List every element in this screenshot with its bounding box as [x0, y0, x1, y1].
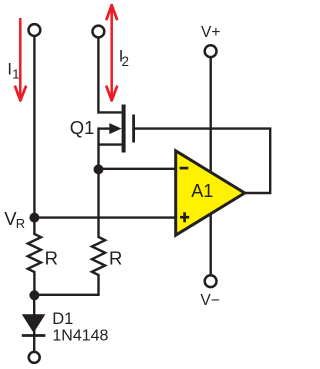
svg-text:V+: V+ [201, 24, 220, 41]
label I2 [119, 48, 129, 69]
label I1 [7, 61, 19, 82]
node: Q1 source junction [94, 164, 104, 174]
terminal T3 (diode cathode, bottom) [29, 352, 40, 363]
svg-text:Q1: Q1 [70, 117, 95, 138]
op-amp A1 [176, 151, 245, 235]
label VR [4, 208, 25, 231]
wire: source junction to op-amp - input [99, 168, 175, 170]
svg-text:D1: D1 [52, 310, 73, 328]
terminal V- [205, 275, 217, 287]
wire: node VR to op-amp + input [34, 216, 174, 218]
resistor R (right) [92, 169, 105, 296]
svg-text:2: 2 [122, 54, 130, 69]
node: diode anode junction [29, 290, 39, 300]
terminal T1 (I1 input) [29, 24, 41, 36]
svg-text:I: I [7, 61, 12, 79]
svg-text:R: R [109, 248, 122, 269]
diode D1 [22, 314, 46, 335]
svg-text:1: 1 [12, 67, 19, 82]
terminal T2 (I2 input) [93, 26, 105, 38]
terminal V+ [205, 45, 217, 57]
wire: Q1 gate lead, feedback from op-amp output [135, 129, 270, 193]
svg-text:A1: A1 [191, 181, 213, 201]
current arrow I1 [15, 18, 26, 101]
wire: supply rail V+ to V- (behind op-amp) [209, 58, 211, 275]
wire: T1 down to node VR [33, 36, 35, 218]
svg-text:1N4148: 1N4148 [52, 328, 108, 345]
node VR (junction dot) [29, 213, 39, 223]
current arrow I2 (double-headed) [106, 4, 117, 101]
svg-text:R: R [16, 216, 25, 231]
wire: junction down to diode and bottom terminal [33, 295, 35, 352]
wire: T2 down and right to Q1 drain [98, 38, 121, 113]
svg-text:V−: V− [200, 292, 219, 309]
transistor Q1 [99, 105, 136, 170]
resistor R (left) [28, 218, 41, 296]
wire: bottom horizontal joining right resistor branch [34, 294, 98, 296]
svg-text:R: R [45, 248, 58, 269]
